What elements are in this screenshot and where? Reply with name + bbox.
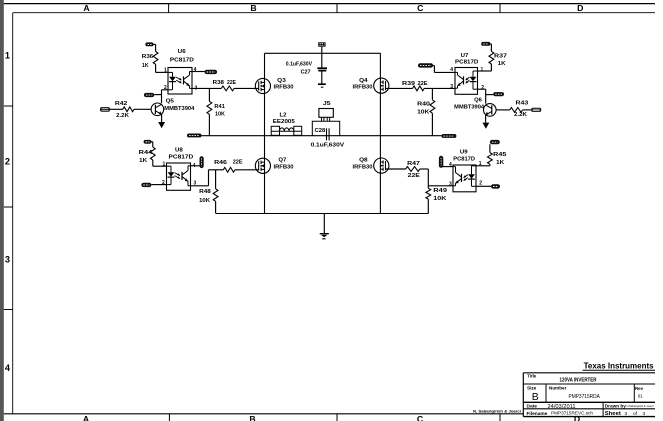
svg-text:Drawn by: Drawn by bbox=[605, 404, 626, 410]
svg-text:2: 2 bbox=[481, 85, 484, 91]
svg-text:4: 4 bbox=[5, 363, 11, 373]
svg-text:1: 1 bbox=[5, 50, 10, 60]
svg-text:Q5: Q5 bbox=[166, 98, 175, 104]
svg-text:120VA INVERTER: 120VA INVERTER bbox=[560, 377, 597, 383]
svg-text:R42: R42 bbox=[115, 101, 127, 107]
svg-text:C28: C28 bbox=[315, 128, 326, 134]
svg-text:A: A bbox=[83, 414, 90, 421]
svg-text:MMBT3904: MMBT3904 bbox=[164, 106, 195, 112]
svg-text:Date: Date bbox=[527, 404, 538, 410]
svg-text:Title: Title bbox=[527, 374, 537, 379]
svg-text:2: 2 bbox=[5, 157, 10, 167]
svg-text:R44: R44 bbox=[139, 150, 154, 156]
svg-text:IRFB30: IRFB30 bbox=[353, 85, 373, 91]
svg-text:Q4: Q4 bbox=[359, 78, 368, 84]
svg-text:1K: 1K bbox=[142, 63, 149, 69]
svg-text:PMP3715RDA: PMP3715RDA bbox=[569, 394, 601, 400]
svg-text:3: 3 bbox=[450, 84, 453, 90]
svg-text:22E: 22E bbox=[418, 81, 428, 87]
svg-text:MMBT3904: MMBT3904 bbox=[454, 104, 485, 110]
svg-text:Size: Size bbox=[527, 385, 537, 390]
svg-text:R36: R36 bbox=[142, 54, 154, 60]
svg-text:J5: J5 bbox=[323, 101, 332, 107]
svg-text:B: B bbox=[249, 414, 255, 421]
svg-text:R46: R46 bbox=[214, 160, 227, 166]
svg-text:R40: R40 bbox=[417, 102, 430, 108]
svg-text:D: D bbox=[577, 3, 583, 13]
svg-text:U8: U8 bbox=[175, 147, 184, 153]
svg-text:U6: U6 bbox=[178, 49, 187, 55]
svg-text:PC817D: PC817D bbox=[170, 57, 194, 63]
svg-text:B: B bbox=[250, 3, 256, 13]
svg-text:U9: U9 bbox=[460, 149, 468, 155]
svg-text:Number: Number bbox=[549, 385, 567, 390]
svg-text:PC817D: PC817D bbox=[453, 157, 475, 163]
svg-text:0.1uF,630V: 0.1uF,630V bbox=[311, 143, 345, 149]
svg-text:1K: 1K bbox=[139, 158, 147, 164]
svg-text:EE2005: EE2005 bbox=[273, 119, 295, 125]
svg-text:R49: R49 bbox=[433, 188, 447, 194]
svg-text:3: 3 bbox=[643, 411, 646, 417]
svg-text:C: C bbox=[417, 3, 424, 13]
svg-text:3: 3 bbox=[449, 181, 452, 187]
svg-text:C27: C27 bbox=[301, 70, 311, 76]
svg-text:Texas Instruments: Texas Instruments bbox=[584, 362, 655, 371]
svg-text:IRFB30: IRFB30 bbox=[353, 165, 373, 171]
svg-text:N.Sabarigirish & Joarci: N.Sabarigirish & Joarci bbox=[627, 404, 654, 408]
svg-text:A: A bbox=[83, 3, 90, 13]
svg-text:R48: R48 bbox=[199, 189, 211, 195]
svg-text:IRFB30: IRFB30 bbox=[274, 165, 294, 171]
svg-text:Q8: Q8 bbox=[359, 157, 368, 163]
svg-text:3: 3 bbox=[625, 411, 628, 417]
svg-text:24/03/2011: 24/03/2011 bbox=[548, 404, 576, 410]
svg-text:R37: R37 bbox=[494, 54, 507, 60]
svg-text:2: 2 bbox=[479, 181, 482, 187]
svg-text:Q6: Q6 bbox=[474, 97, 482, 103]
svg-text:1: 1 bbox=[481, 67, 484, 73]
svg-text:R38: R38 bbox=[213, 80, 224, 86]
svg-text:22E: 22E bbox=[233, 160, 243, 166]
svg-text:22E: 22E bbox=[408, 173, 421, 179]
svg-text:Q3: Q3 bbox=[277, 78, 286, 84]
svg-text:Q7: Q7 bbox=[278, 157, 286, 163]
svg-text:Rev: Rev bbox=[635, 386, 644, 391]
svg-text:1K: 1K bbox=[496, 160, 504, 166]
svg-text:Filename: Filename bbox=[527, 411, 548, 417]
svg-text:10K: 10K bbox=[215, 112, 225, 118]
svg-text:10K: 10K bbox=[417, 110, 429, 116]
svg-text:N. Sabarigirish & Joarci: N. Sabarigirish & Joarci bbox=[473, 409, 521, 413]
svg-text:3: 3 bbox=[5, 255, 10, 265]
svg-text:Sheet: Sheet bbox=[605, 411, 621, 417]
svg-text:R41: R41 bbox=[214, 104, 225, 110]
svg-text:PC817D: PC817D bbox=[455, 60, 478, 66]
svg-text:L2: L2 bbox=[280, 112, 287, 118]
svg-text:PC817D: PC817D bbox=[169, 155, 194, 161]
svg-text:B: B bbox=[532, 392, 539, 403]
svg-text:1K: 1K bbox=[498, 61, 506, 67]
svg-text:22E: 22E bbox=[227, 80, 236, 86]
svg-text:R39: R39 bbox=[402, 81, 415, 87]
svg-text:IRFB30: IRFB30 bbox=[274, 85, 294, 91]
svg-text:R47: R47 bbox=[407, 161, 420, 167]
svg-text:4: 4 bbox=[194, 67, 197, 73]
svg-text:2.2K: 2.2K bbox=[116, 113, 129, 119]
svg-text:R45: R45 bbox=[493, 152, 506, 158]
svg-text:PMP3715REVC.sch: PMP3715REVC.sch bbox=[551, 411, 593, 416]
svg-text:R43: R43 bbox=[516, 101, 529, 107]
svg-text:U7: U7 bbox=[461, 53, 469, 59]
svg-text:C: C bbox=[417, 414, 424, 421]
svg-text:of: of bbox=[633, 411, 638, 417]
svg-text:2.2K: 2.2K bbox=[514, 112, 527, 118]
svg-text:10K: 10K bbox=[199, 198, 210, 204]
svg-text:10K: 10K bbox=[433, 196, 446, 202]
svg-text:0.1uF,630V: 0.1uF,630V bbox=[286, 62, 313, 68]
svg-text:01: 01 bbox=[638, 394, 644, 399]
